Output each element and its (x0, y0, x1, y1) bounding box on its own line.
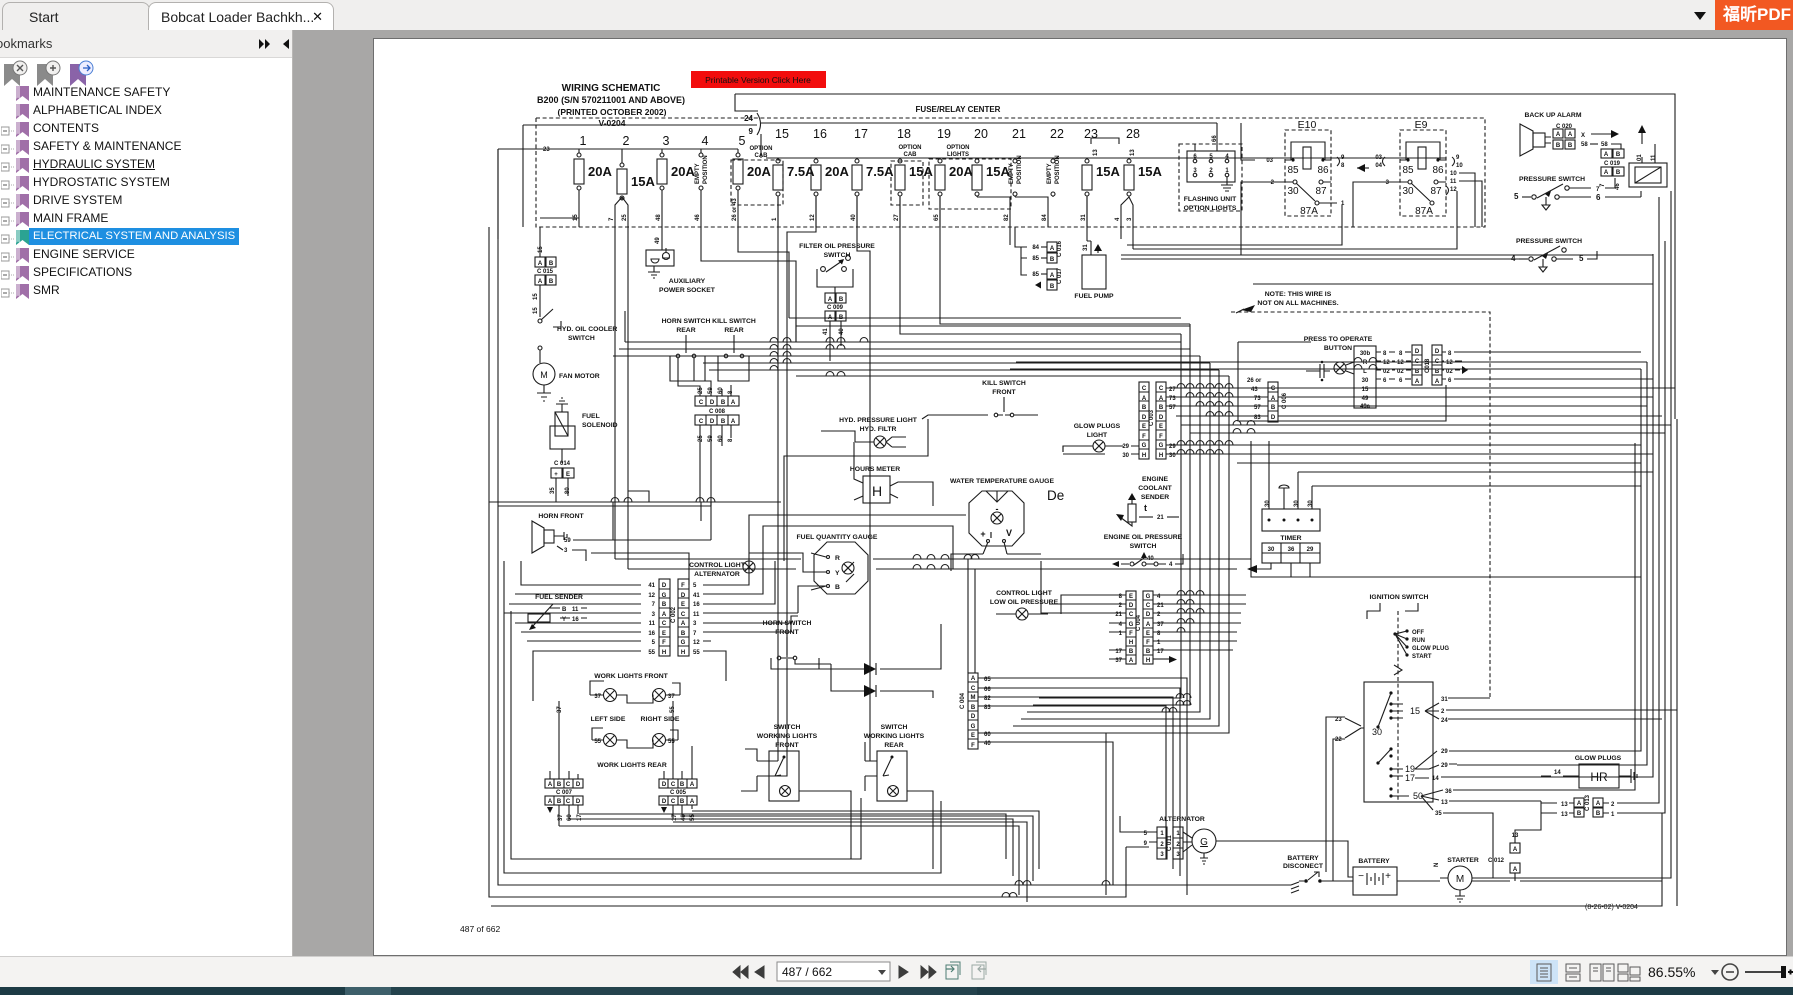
svg-text:HORN FRONT: HORN FRONT (538, 513, 584, 520)
svg-text:9: 9 (1144, 841, 1148, 847)
svg-text:13: 13 (1561, 802, 1568, 808)
svg-text:D: D (681, 593, 686, 599)
hyd pressure light left wire (821, 431, 855, 442)
svg-text:C: C (1159, 386, 1164, 392)
svg-text:12: 12 (810, 214, 816, 221)
connector C 016 (1032, 240, 1063, 263)
svg-text:6: 6 (1383, 378, 1387, 384)
kill switch rear (712, 318, 756, 381)
horn front (532, 513, 613, 561)
auxiliary power socket (646, 227, 716, 294)
svg-text:B: B (562, 607, 567, 613)
connector C 008 (678, 358, 739, 540)
svg-text:LOW OIL PRESSURE: LOW OIL PRESSURE (990, 599, 1059, 606)
svg-text:11: 11 (693, 612, 700, 618)
svg-text:22: 22 (1335, 737, 1342, 743)
pressure switch 2 (1511, 238, 1597, 272)
svg-text:G: G (1142, 443, 1147, 449)
wire 46 from fuse4 (701, 227, 796, 342)
svg-text:SOLENOID: SOLENOID (582, 422, 618, 429)
svg-text:OFF: OFF (1412, 630, 1424, 636)
svg-text:31: 31 (1081, 214, 1087, 221)
wires C002 left fan-out (504, 561, 641, 701)
svg-text:16: 16 (648, 631, 655, 637)
starter (1434, 857, 1481, 902)
svg-text:FUEL QUANTITY GAUGE: FUEL QUANTITY GAUGE (797, 534, 878, 541)
svg-text:11: 11 (572, 607, 579, 613)
svg-text:C 004: C 004 (960, 692, 966, 709)
svg-text:86.55%: 86.55% (1648, 964, 1695, 980)
svg-text:C 005: C 005 (670, 790, 687, 796)
svg-text:SENDER: SENDER (1141, 494, 1169, 501)
wire 23 long left vertical (498, 149, 1291, 885)
dashed wire not on all machines (1231, 312, 1490, 561)
stack feed verticals (968, 559, 975, 673)
svg-text:LIGHT: LIGHT (1087, 432, 1108, 439)
svg-text:REAR: REAR (884, 742, 903, 749)
svg-text:10: 10 (1450, 171, 1457, 177)
svg-text:15A: 15A (1138, 164, 1162, 179)
connector C 004 gauge pair (1109, 591, 1246, 664)
wire bus y558 (615, 558, 1251, 560)
svg-text:B: B (549, 279, 554, 285)
svg-text:23: 23 (1335, 717, 1342, 723)
back up alarm (1520, 112, 1621, 156)
svg-text:84: 84 (1032, 245, 1039, 251)
C018 wire 6 right (1462, 378, 1653, 380)
right horizontals upper (1010, 362, 1647, 369)
svg-text:30: 30 (1308, 500, 1314, 507)
svg-text:15: 15 (573, 214, 579, 221)
svg-text:C: C (671, 782, 676, 788)
filter oil pressure switch (799, 243, 875, 361)
engine coolant sender (1116, 476, 1179, 526)
ignition 23 22 wires (1326, 717, 1345, 881)
wire 26or43 from fuse5 (738, 227, 789, 318)
svg-text:82: 82 (1004, 214, 1010, 221)
connector C 006 (1247, 378, 1288, 422)
svg-text:E: E (662, 631, 666, 637)
fuse F28 15A (1115, 127, 1162, 227)
svg-text:HORN SWITCH: HORN SWITCH (662, 318, 711, 325)
bottom taskbar strip (0, 987, 1793, 995)
svg-text:A: A (681, 621, 686, 627)
svg-text:15: 15 (533, 307, 539, 314)
svg-text:20A: 20A (825, 164, 849, 179)
wire bus y568 (628, 568, 1237, 570)
svg-text:M: M (971, 695, 976, 701)
svg-text:BATTERY: BATTERY (1287, 855, 1319, 862)
svg-text:27: 27 (894, 214, 900, 221)
svg-text:87: 87 (1315, 186, 1327, 197)
wire 13 bracket fuse 23 (1091, 138, 1119, 156)
hyd oil cooler switch (538, 309, 617, 363)
wire brace to fuse bus (760, 134, 762, 158)
wire E9 pin3 drop (1353, 182, 1400, 227)
wire fuse17 40 down (857, 197, 877, 761)
svg-text:G: G (681, 640, 686, 646)
right fuse feeder bus (766, 157, 1446, 159)
svg-text:A: A (538, 279, 543, 285)
svg-text:14: 14 (1554, 770, 1561, 776)
svg-text:19: 19 (937, 127, 951, 141)
svg-text:6: 6 (1193, 154, 1197, 160)
svg-text:RIGHT SIDE: RIGHT SIDE (641, 716, 680, 723)
svg-text:4: 4 (1115, 217, 1121, 221)
svg-text:A: A (1146, 622, 1151, 628)
fuel sender (528, 594, 587, 630)
svg-text:B: B (1556, 143, 1561, 149)
svg-text:G: G (1200, 837, 1208, 848)
svg-text:F: F (662, 640, 666, 646)
svg-text:20: 20 (974, 127, 988, 141)
svg-text:7: 7 (609, 217, 615, 221)
svg-text:Y: Y (835, 570, 840, 577)
svg-text:85: 85 (1287, 165, 1299, 176)
svg-text:16: 16 (572, 617, 579, 623)
svg-text:B: B (721, 400, 726, 406)
svg-text:60: 60 (718, 387, 724, 394)
wire Y bus y552 (591, 553, 689, 585)
svg-text:B: B (1596, 811, 1601, 817)
svg-text:WATER TEMPERATURE GAUGE: WATER TEMPERATURE GAUGE (950, 478, 1054, 485)
alternator (1144, 816, 1341, 864)
svg-text:ENGINE: ENGINE (1142, 476, 1169, 483)
svg-text:M: M (540, 370, 548, 380)
svg-text:85: 85 (1402, 165, 1414, 176)
svg-text:E: E (566, 472, 570, 478)
connector C 012 (1488, 833, 1520, 881)
svg-text:B: B (1050, 257, 1055, 263)
svg-text:CONTROL LIGHT: CONTROL LIGHT (996, 590, 1053, 597)
glow plugs light (1063, 423, 1139, 459)
connector C 015 (533, 227, 556, 317)
svg-text:V-0204: V-0204 (599, 118, 626, 128)
wire fuse1 jog to C015 (540, 217, 579, 219)
svg-text:37: 37 (557, 706, 563, 713)
wire bus y505 (498, 505, 711, 507)
horizontal bus stack mid (613, 342, 1200, 356)
svg-text:C 008: C 008 (709, 409, 726, 415)
svg-text:F: F (1129, 631, 1133, 637)
svg-text:+: + (980, 529, 985, 539)
svg-text:GLOW PLUG: GLOW PLUG (1412, 646, 1449, 652)
svg-text:1: 1 (1160, 831, 1164, 837)
wire 82 down (1009, 227, 1011, 245)
svg-text:t: t (1144, 503, 1147, 513)
svg-text:30: 30 (1268, 547, 1275, 553)
svg-text:WORK LIGHTS FRONT: WORK LIGHTS FRONT (594, 673, 668, 680)
svg-text:40: 40 (681, 814, 687, 821)
ignition bus wires (1456, 698, 1677, 719)
svg-text:2: 2 (1160, 842, 1164, 848)
svg-text:C 011: C 011 (1167, 835, 1173, 851)
svg-text:CONTROL LIGHT: CONTROL LIGHT (689, 562, 746, 569)
svg-text:C 004: C 004 (1136, 614, 1142, 631)
svg-text:11: 11 (649, 621, 656, 627)
svg-text:C: C (971, 686, 976, 692)
svg-text:B: B (1129, 649, 1134, 655)
svg-text:30: 30 (1265, 500, 1271, 507)
svg-text:7: 7 (1600, 183, 1606, 187)
svg-text:C 016: C 016 (1057, 240, 1063, 257)
svg-text:59: 59 (564, 538, 571, 544)
svg-text:29: 29 (1307, 547, 1314, 553)
svg-text:30: 30 (1294, 500, 1300, 507)
svg-text:D: D (710, 400, 715, 406)
svg-text:A: A (1050, 246, 1055, 252)
svg-text:D: D (576, 782, 581, 788)
svg-text:LIGHTS: LIGHTS (947, 152, 969, 158)
svg-text:1: 1 (1225, 168, 1229, 174)
svg-text:TIMER: TIMER (1280, 535, 1301, 542)
svg-text:OPTION: OPTION (898, 145, 921, 151)
wires C006 to right (1278, 388, 1675, 416)
svg-text:G: G (971, 724, 976, 730)
svg-text:COOLANT: COOLANT (1138, 485, 1172, 492)
connector C 007 (545, 701, 583, 826)
svg-text:E: E (1146, 631, 1150, 637)
svg-text:5: 5 (1209, 154, 1213, 160)
svg-text:E9: E9 (1415, 119, 1428, 131)
wire 31 fuel pump up (1086, 227, 1088, 241)
svg-text:30: 30 (1362, 378, 1369, 384)
svg-text:A: A (1577, 801, 1582, 807)
svg-text:B: B (721, 419, 726, 425)
svg-text:B: B (662, 602, 667, 608)
connector C 002 (648, 579, 700, 656)
svg-text:KILL SWITCH: KILL SWITCH (982, 380, 1026, 387)
svg-text:86: 86 (1317, 165, 1329, 176)
fuse F2 15A (609, 134, 655, 227)
connector C 005 (659, 701, 697, 821)
connector stack C 004b work lights (960, 673, 992, 749)
svg-text:C: C (671, 799, 676, 805)
svg-text:21: 21 (1157, 515, 1164, 521)
timer (1262, 441, 1320, 563)
svg-text:1: 1 (772, 217, 778, 221)
svg-text:13: 13 (1561, 812, 1568, 818)
svg-text:+: + (554, 472, 558, 478)
svg-text:3: 3 (1386, 180, 1390, 186)
svg-text:13: 13 (1130, 149, 1136, 156)
svg-text:2: 2 (623, 134, 630, 148)
svg-text:C 019: C 019 (1604, 161, 1621, 167)
svg-text:B: B (680, 782, 685, 788)
wire 24 feed to fuse box (523, 125, 757, 227)
svg-text:13: 13 (1093, 149, 1099, 156)
svg-text:15A: 15A (909, 164, 933, 179)
fuse F5 20A (732, 134, 771, 227)
extra long buses right (1181, 425, 1671, 463)
svg-text:PRESSURE SWITCH: PRESSURE SWITCH (1519, 176, 1585, 183)
svg-text:ENGINE OIL PRESSURE: ENGINE OIL PRESSURE (1104, 534, 1183, 541)
svg-text:R: R (1363, 360, 1368, 366)
svg-text:12: 12 (1450, 187, 1457, 193)
wire left bus 3 (504, 561, 941, 873)
timer lower wires (1255, 563, 1310, 577)
svg-text:60: 60 (718, 435, 724, 442)
svg-text:D: D (1129, 603, 1134, 609)
svg-text:H: H (1142, 453, 1146, 459)
svg-text:48: 48 (656, 214, 662, 221)
svg-text:FUEL PUMP: FUEL PUMP (1074, 293, 1114, 300)
svg-text:C: C (699, 400, 704, 406)
svg-text:E: E (1129, 594, 1133, 600)
svg-text:87: 87 (1430, 186, 1442, 197)
svg-text:+: + (1385, 871, 1391, 882)
wire 03 feed E10 (1241, 123, 1255, 160)
wire y317 run (789, 317, 1181, 319)
glow plugs (1541, 755, 1637, 788)
svg-text:SWITCH: SWITCH (881, 724, 908, 731)
svg-text:B: B (557, 782, 562, 788)
svg-text:B: B (1616, 152, 1621, 158)
svg-text:3: 3 (652, 612, 656, 618)
svg-text:20A: 20A (949, 164, 973, 179)
svg-text:02: 02 (1446, 369, 1453, 375)
battery (1341, 858, 1415, 895)
svg-text:41: 41 (693, 593, 700, 599)
svg-text:A: A (1435, 379, 1440, 385)
svg-text:D: D (662, 583, 667, 589)
svg-text:A: A (538, 261, 543, 267)
svg-text:3: 3 (564, 548, 568, 554)
horn switch rear (662, 318, 711, 381)
svg-text:2: 2 (1271, 180, 1275, 186)
svg-text:B: B (680, 799, 685, 805)
wire fuse15 1 down to switch working lights (769, 197, 778, 761)
hours meter wires (854, 442, 933, 506)
hyd pressure light (839, 417, 918, 448)
fuse F17 7.5A (851, 127, 894, 227)
note this wire is not on all machines (1236, 291, 1339, 313)
svg-text:31: 31 (1441, 697, 1448, 703)
svg-text:2: 2 (1441, 709, 1445, 715)
bottom center wires from C007 C005 (559, 814, 1019, 895)
svg-text:86: 86 (1432, 165, 1444, 176)
wire left bus 2 (489, 227, 1126, 897)
work lights rear (592, 728, 678, 769)
ignition switch (1335, 594, 1486, 817)
svg-text:E: E (681, 602, 685, 608)
schematic frame top (735, 94, 1675, 419)
svg-text:A: A (690, 782, 695, 788)
relay E9 (1375, 119, 1463, 217)
svg-text:F: F (1146, 640, 1150, 646)
svg-text:A: A (1513, 847, 1518, 853)
svg-text:WIRING SCHEMATIC: WIRING SCHEMATIC (562, 83, 661, 94)
svg-text:EMPTY: EMPTY (695, 163, 701, 184)
svg-text:FLASHING UNIT: FLASHING UNIT (1184, 196, 1237, 203)
bottom long bus wire (491, 813, 1662, 906)
svg-text:CAB: CAB (904, 152, 918, 158)
connector C 018 pair (1412, 345, 1468, 385)
water temperature gauge (950, 478, 1054, 554)
svg-text:POSITION: POSITION (1017, 155, 1023, 184)
fuse F18 15A (894, 127, 933, 227)
printable version button (691, 71, 826, 88)
wire fuse18 27 down right (900, 197, 1181, 334)
wire y576 run (1251, 441, 1641, 577)
svg-text:15: 15 (533, 293, 539, 300)
svg-text:RUN: RUN (1412, 638, 1425, 644)
svg-text:49: 49 (655, 237, 661, 244)
svg-text:21: 21 (1012, 127, 1026, 141)
svg-text:7.5A: 7.5A (866, 164, 894, 179)
arrow between relays (1357, 167, 1369, 169)
C018 wire 8 right (1462, 351, 1641, 353)
svg-text:487 of 662: 487 of 662 (460, 924, 500, 934)
flashing unit option lights (1179, 123, 1242, 212)
svg-text:R: R (835, 555, 840, 562)
svg-text:KILL SWITCH: KILL SWITCH (712, 318, 756, 325)
option cab box fuse 18 (891, 145, 923, 205)
svg-text:26 or: 26 or (1247, 378, 1262, 384)
svg-text:A: A (1596, 801, 1601, 807)
svg-text:8: 8 (1399, 351, 1403, 357)
fuse F20 15A (972, 127, 1010, 227)
control light alternator (689, 561, 755, 578)
svg-text:OPTION LIGHTS: OPTION LIGHTS (1184, 205, 1237, 212)
svg-text:03: 03 (1375, 155, 1382, 161)
fuse F4 empty position (695, 134, 709, 227)
svg-text:1: 1 (580, 134, 587, 148)
fuse F16 20A (810, 127, 849, 227)
wire y325 run (796, 318, 1190, 342)
control light low oil pressure (990, 590, 1059, 620)
svg-text:NOT ON ALL MACHINES.: NOT ON ALL MACHINES. (1257, 300, 1338, 307)
svg-text:E: E (971, 733, 975, 739)
svg-text:FUEL: FUEL (582, 413, 600, 420)
svg-text:A: A (1556, 132, 1561, 138)
svg-text:02: 02 (1397, 369, 1404, 375)
svg-text:V: V (1006, 528, 1012, 538)
svg-text:B: B (839, 297, 844, 303)
svg-text:23: 23 (543, 147, 550, 153)
svg-text:NOTE: THIS WIRE IS: NOTE: THIS WIRE IS (1265, 291, 1332, 298)
svg-text:Printable Version Click Here: Printable Version Click Here (705, 75, 811, 85)
svg-text:55: 55 (693, 650, 700, 656)
svg-text:87A: 87A (1415, 206, 1433, 217)
svg-text:3: 3 (693, 621, 697, 627)
wire fuse19 65 down right (940, 197, 1190, 324)
svg-text:8: 8 (728, 438, 734, 442)
switch working lights front (757, 724, 818, 801)
svg-text:B: B (1577, 811, 1582, 817)
diode pair (856, 663, 888, 697)
svg-text:FRONT: FRONT (992, 389, 1016, 396)
svg-text:25: 25 (698, 387, 704, 394)
fuel pump (1074, 241, 1114, 300)
glow plug light wires (1062, 446, 1064, 452)
svg-text:BACK UP ALARM: BACK UP ALARM (1524, 112, 1581, 119)
right long verticals (1457, 191, 1677, 906)
svg-text:30: 30 (1122, 453, 1129, 459)
svg-text:GLOW PLUGS: GLOW PLUGS (1575, 755, 1622, 762)
svg-text:15: 15 (1410, 706, 1420, 716)
svg-text:24: 24 (1441, 718, 1448, 724)
svg-text:POSITION: POSITION (1055, 155, 1061, 184)
svg-text:D: D (1415, 349, 1420, 355)
wire y283 (1253, 283, 1653, 285)
svg-text:35: 35 (1435, 811, 1442, 817)
svg-text:H: H (1146, 658, 1150, 664)
svg-text:46: 46 (1615, 183, 1621, 190)
svg-text:EMPTY: EMPTY (1047, 163, 1053, 184)
switch working lights rear (864, 724, 925, 801)
svg-text:30: 30 (1287, 186, 1299, 197)
